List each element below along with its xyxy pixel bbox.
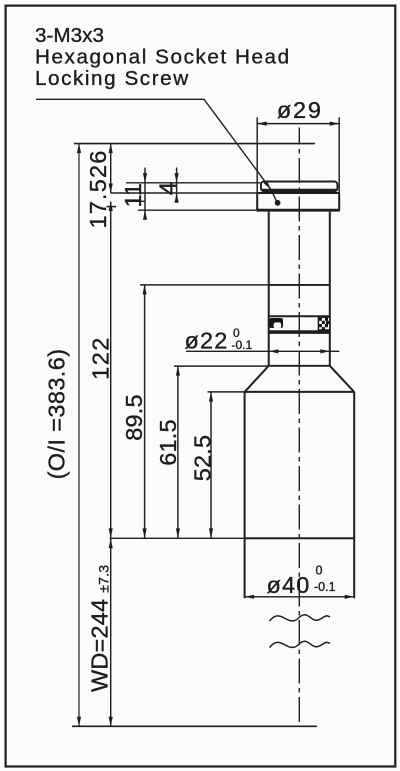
wide barrel left edge: [244, 392, 246, 598]
svg-text:52.5: 52.5: [190, 435, 216, 482]
svg-text:61.5: 61.5: [155, 419, 181, 466]
89.5 bottom arrowhead: [143, 528, 147, 538]
O/I bottom arrowhead: [77, 717, 81, 727]
122 top arrowhead: [109, 202, 113, 212]
flange top edge: [257, 192, 339, 194]
cone top line: [269, 365, 330, 367]
o22 right arrowhead: [320, 349, 330, 353]
122 bottom arrowhead: [109, 528, 113, 538]
svg-text:Locking Screw: Locking Screw: [35, 67, 190, 90]
object plane reference line: [72, 725, 317, 727]
WD bottom arrowhead: [109, 717, 113, 727]
locking screw dot: [275, 200, 281, 206]
122 top reference stub: [126, 200, 145, 202]
plate top extension line: [126, 182, 261, 184]
52.5 reference line: [208, 391, 245, 393]
flange right edge: [338, 193, 340, 210]
11 bottom arrowhead: [143, 210, 147, 220]
52.5 bottom arrowhead: [209, 528, 213, 538]
svg-text:17.526: 17.526: [85, 149, 111, 228]
groove right block: [318, 317, 329, 330]
dimension 61.5 line: [177, 366, 179, 538]
flange bottom extension line: [138, 209, 257, 211]
61.5 top arrowhead: [176, 366, 180, 376]
11 top arrowhead: [143, 173, 147, 183]
o22 left arrowhead: [269, 349, 279, 353]
flange bottom edge: [257, 209, 340, 212]
89.5 reference line: [140, 284, 269, 286]
svg-text:ø22: ø22: [184, 328, 228, 354]
barrel left edge: [268, 212, 270, 367]
svg-text:-0.1: -0.1: [314, 580, 336, 594]
svg-text:ø29: ø29: [277, 97, 323, 123]
break wave upper: [270, 615, 331, 621]
dimension 52.5 line: [210, 392, 212, 538]
O/I top arrowhead: [77, 144, 81, 154]
o29 right arrowhead: [330, 122, 340, 126]
o40 right arrowhead: [345, 595, 355, 599]
4 top arrowhead: [175, 173, 179, 183]
17.526 top arrowhead: [109, 144, 113, 154]
dimension (O/I=383.6) line: [78, 144, 80, 727]
svg-text:11: 11: [120, 183, 146, 207]
svg-text:Hexagonal Socket Head: Hexagonal Socket Head: [35, 46, 291, 69]
break wave lower: [270, 641, 331, 647]
svg-text:ø40: ø40: [266, 572, 310, 598]
dimension WD=244 line: [110, 539, 112, 727]
shoulder line: [245, 391, 355, 393]
61.5 bottom arrowhead: [176, 528, 180, 538]
WD top arrowhead: [109, 539, 113, 549]
cone left edge: [245, 366, 269, 392]
dimension 122 line: [110, 202, 112, 538]
dimension o29 line: [257, 123, 339, 125]
leader line from note: [36, 99, 276, 200]
svg-text:(O/I =383.6): (O/I =383.6): [44, 349, 70, 480]
groove top line: [269, 315, 330, 317]
122 arrow base tick: [107, 206, 117, 208]
image plane reference line: [74, 143, 315, 145]
window line across barrel: [245, 537, 355, 539]
svg-text:122: 122: [88, 336, 114, 380]
WD reference line: [110, 537, 245, 539]
o29 left arrowhead: [257, 122, 267, 126]
svg-text:WD=244±7.3: WD=244±7.3: [87, 565, 113, 692]
cone right edge: [330, 366, 354, 392]
groove bottom thick line: [269, 330, 330, 334]
4 bottom arrowhead: [175, 193, 179, 203]
o29 left extension line: [256, 117, 258, 193]
dimension 89.5 line: [144, 285, 146, 538]
locking ring plate bottom accent: [262, 189, 337, 191]
o29 right extension line: [338, 117, 340, 193]
svg-text:3-M3x3: 3-M3x3: [35, 24, 104, 47]
52.5 top arrowhead: [209, 392, 213, 402]
wide barrel right edge: [353, 392, 355, 598]
barrel right edge: [329, 212, 331, 367]
17.526 bottom arrowhead: [109, 184, 113, 194]
o40 left arrowhead: [245, 595, 255, 599]
locking ring plate: [261, 182, 337, 192]
leader arrowhead: [264, 181, 271, 190]
dimension 17.526 line: [110, 144, 112, 193]
o40 dimension line: [245, 596, 355, 598]
dimension 4 line: [176, 168, 178, 201]
note text: 3-M3x3 Hexagonal Socket Head Locking Screw: [35, 24, 291, 90]
89.5 top arrowhead: [143, 285, 147, 295]
dimension 11 line: [144, 168, 146, 220]
groove left block: [269, 318, 283, 328]
svg-text:0: 0: [316, 564, 323, 578]
centerline: [298, 128, 300, 727]
o22 dimension line: [186, 350, 339, 352]
barrel joint line: [269, 284, 330, 286]
svg-text:-0.1: -0.1: [232, 338, 253, 352]
flange top extension line: [111, 192, 258, 194]
61.5 reference line: [174, 365, 269, 367]
flange left edge: [256, 193, 258, 210]
svg-text:89.5: 89.5: [121, 394, 147, 441]
